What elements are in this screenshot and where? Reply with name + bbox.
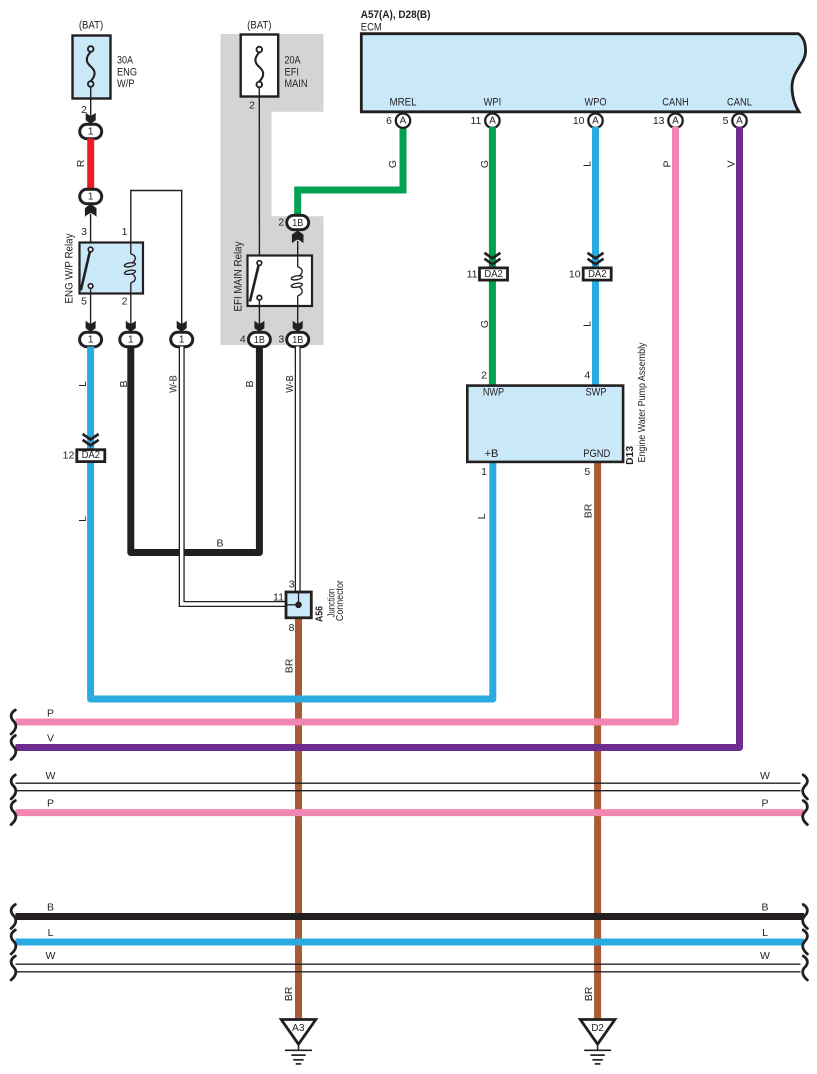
svg-text:1: 1 (128, 334, 134, 345)
svg-text:W-B: W-B (284, 375, 296, 393)
svg-text:SWP: SWP (586, 387, 607, 399)
svg-text:G: G (479, 160, 491, 168)
svg-text:MREL: MREL (390, 96, 417, 108)
connector oval 1B (EFI relay pin4) (240, 332, 271, 346)
svg-text:2: 2 (481, 370, 487, 382)
svg-text:(BAT): (BAT) (247, 20, 271, 32)
svg-text:1B: 1B (254, 334, 265, 346)
squiggles L bus (11, 930, 16, 954)
svg-text:2: 2 (249, 100, 255, 112)
svg-text:L: L (476, 513, 488, 519)
relay ENG W/P (64, 226, 144, 308)
squiggles B bus (11, 905, 16, 929)
svg-text:L: L (48, 927, 54, 939)
svg-text:BR: BR (283, 986, 295, 1001)
wire relay pin5 (86, 289, 96, 332)
svg-text:Connector: Connector (334, 580, 346, 621)
svg-text:DA2: DA2 (82, 450, 101, 461)
squiggles P bus (11, 801, 16, 825)
svg-text:WPI: WPI (484, 96, 502, 108)
svg-text:EFI MAIN Relay: EFI MAIN Relay (233, 241, 245, 311)
connector 11 DA2 (467, 253, 508, 281)
svg-text:3: 3 (278, 333, 284, 345)
svg-text:P: P (47, 797, 54, 809)
wire R (red) (75, 139, 91, 190)
svg-text:G: G (387, 160, 399, 168)
connector oval 1 (fuse to R wire) (80, 124, 102, 138)
connector oval 1 (relay pin1, W-B wire) (171, 332, 193, 346)
squiggles W lower bus (11, 956, 16, 980)
svg-text:5: 5 (723, 115, 729, 127)
fuse 30A ENG W/P (73, 20, 138, 99)
junction connector A56 (273, 578, 346, 634)
svg-text:13: 13 (653, 115, 665, 127)
svg-text:B: B (118, 380, 130, 387)
svg-text:1: 1 (88, 191, 94, 202)
squiggle left end P wire (11, 710, 16, 734)
svg-text:8: 8 (289, 622, 295, 634)
svg-text:11: 11 (467, 269, 478, 281)
svg-text:W: W (760, 950, 770, 962)
wire W-B (oval to junction A56 left) (168, 347, 286, 605)
svg-text:W: W (46, 950, 56, 962)
connector oval 1 (relay pin5, L wire) (80, 332, 102, 346)
svg-text:(BAT): (BAT) (79, 20, 103, 32)
svg-text:B: B (761, 901, 768, 913)
svg-text:A: A (736, 116, 743, 127)
svg-text:1: 1 (481, 466, 487, 478)
bus wire P (lower pink) (16, 797, 805, 812)
svg-text:20A: 20A (285, 55, 302, 67)
connector oval 1B (EFI relay pin3) (278, 332, 308, 346)
connector oval 1 (relay pin2, B wire) (120, 332, 142, 346)
bus wire L (blue) (16, 927, 805, 942)
connector 10 DA2 (569, 253, 611, 281)
svg-text:B: B (47, 901, 54, 913)
svg-text:W/P: W/P (117, 78, 135, 90)
svg-text:L: L (77, 381, 89, 387)
wire relay pin2 (126, 294, 136, 333)
svg-text:P: P (761, 797, 768, 809)
svg-text:V: V (725, 160, 737, 167)
wire EFI relay pin4 (254, 300, 264, 332)
ECM terminal 6 A (MREL) (386, 114, 410, 128)
svg-text:MAIN: MAIN (285, 78, 308, 90)
svg-text:11: 11 (273, 592, 284, 604)
svg-text:B: B (244, 380, 256, 387)
svg-text:30A: 30A (117, 55, 134, 67)
wire G (green, ECM WPI to NWP) (479, 127, 493, 386)
svg-text:BR: BR (583, 503, 595, 518)
ECM terminal 5 A (CANL) (723, 114, 747, 128)
ECM terminal 13 A (CANH) (653, 114, 683, 128)
engine water pump assembly D13 (467, 342, 648, 478)
wire BR (PGND to ground D2) (583, 463, 598, 1020)
svg-text:PGND: PGND (583, 448, 610, 460)
squiggles W upper bus (11, 775, 16, 799)
svg-text:DA2: DA2 (588, 269, 607, 280)
wire EFI relay coil top (292, 230, 304, 255)
svg-text:A: A (672, 116, 679, 127)
svg-text:1: 1 (88, 126, 94, 137)
svg-text:CANL: CANL (727, 96, 752, 108)
svg-text:10: 10 (573, 115, 585, 127)
connector oval 1B (EFI relay pin 2) (278, 215, 308, 229)
svg-text:2: 2 (278, 216, 284, 228)
wire fuse30A pin2 (81, 100, 96, 125)
svg-text:V: V (47, 733, 54, 745)
svg-text:R: R (75, 159, 87, 167)
svg-text:L: L (77, 516, 89, 522)
svg-text:P: P (661, 160, 673, 167)
svg-text:A57(A), D28(B): A57(A), D28(B) (361, 9, 431, 21)
svg-text:D13: D13 (624, 446, 636, 465)
svg-text:DA2: DA2 (484, 269, 503, 280)
ECM terminal 10 A (WPO) (573, 114, 603, 128)
svg-text:+B: +B (485, 448, 499, 460)
fuse 20A EFI MAIN (241, 20, 308, 99)
ground D2 (580, 1020, 615, 1064)
connector 12 DA2 (63, 434, 105, 462)
svg-text:3: 3 (289, 578, 295, 590)
svg-text:B: B (216, 538, 223, 550)
svg-text:L: L (762, 927, 768, 939)
svg-text:EFI: EFI (285, 66, 300, 78)
svg-text:4: 4 (584, 370, 590, 382)
svg-text:1: 1 (122, 226, 128, 238)
relay EFI MAIN (233, 241, 312, 311)
svg-text:CANH: CANH (662, 96, 689, 108)
connector oval 1 (R wire to relay) (80, 189, 102, 203)
svg-text:ENG: ENG (117, 66, 137, 78)
svg-text:W: W (760, 770, 770, 782)
svg-text:1: 1 (179, 334, 185, 345)
svg-text:W-B: W-B (168, 375, 180, 393)
wire P (pink, CANH) (16, 127, 676, 722)
svg-text:A: A (489, 116, 496, 127)
svg-text:1B: 1B (292, 334, 303, 346)
svg-text:10: 10 (569, 269, 581, 281)
wire V (purple, CANL) (16, 127, 740, 748)
svg-text:W: W (46, 770, 56, 782)
svg-text:NWP: NWP (483, 387, 504, 399)
bus wire W (lower pair) (16, 950, 801, 972)
wire EFI relay pin3 (293, 306, 303, 332)
svg-text:D2: D2 (591, 1023, 604, 1034)
wire relay pin1 to connector (131, 191, 187, 333)
wire L (blue, ECM WPO to SWP) (582, 127, 596, 386)
squiggle left end V wire (11, 736, 16, 760)
wire G (green) ECM MREL to EFI relay (298, 127, 403, 216)
svg-text:5: 5 (584, 466, 590, 478)
svg-text:WPO: WPO (585, 96, 607, 108)
ECM box (361, 9, 806, 112)
svg-text:Engine Water Pump Assembly: Engine Water Pump Assembly (636, 342, 648, 463)
svg-text:A: A (592, 116, 599, 127)
wire W-B (EFI relay pin3 to junction A56 top) (284, 347, 298, 593)
svg-text:A3: A3 (292, 1023, 305, 1034)
svg-text:BR: BR (284, 658, 296, 673)
svg-text:11: 11 (470, 115, 481, 127)
svg-text:1: 1 (88, 334, 94, 345)
wire L (blue, relay pin5 through DA2 12 to +B) (77, 347, 493, 700)
svg-text:4: 4 (240, 333, 246, 345)
svg-text:A: A (400, 116, 407, 127)
svg-text:6: 6 (386, 115, 392, 127)
svg-text:3: 3 (81, 226, 87, 238)
svg-text:ECM: ECM (361, 22, 382, 34)
svg-text:L: L (582, 161, 594, 167)
ECM terminal 11 A (WPI) (470, 114, 499, 128)
ground A3 (281, 1020, 316, 1064)
svg-text:12: 12 (63, 449, 75, 461)
svg-text:G: G (479, 320, 491, 328)
svg-text:L: L (582, 321, 594, 327)
svg-text:1B: 1B (292, 217, 303, 229)
wire B (thick black, relay pin2 to EFI relay pin4) (118, 347, 259, 553)
bus wire B (black) (16, 901, 805, 916)
svg-text:5: 5 (81, 296, 87, 308)
svg-text:ENG W/P Relay: ENG W/P Relay (64, 233, 76, 303)
bus wire W (upper pair) (16, 770, 801, 791)
wire 20A fuse pin2 to EFI relay (249, 98, 259, 260)
svg-text:P: P (47, 707, 54, 719)
wire to ENG W/P relay pin 3 (81, 204, 96, 247)
wire BR (junction A56 to ground A3) (283, 619, 299, 1020)
EFI MAIN harness shaded area (221, 34, 324, 345)
svg-text:2: 2 (122, 296, 128, 308)
svg-text:A56: A56 (314, 606, 326, 622)
svg-text:BR: BR (583, 986, 595, 1001)
